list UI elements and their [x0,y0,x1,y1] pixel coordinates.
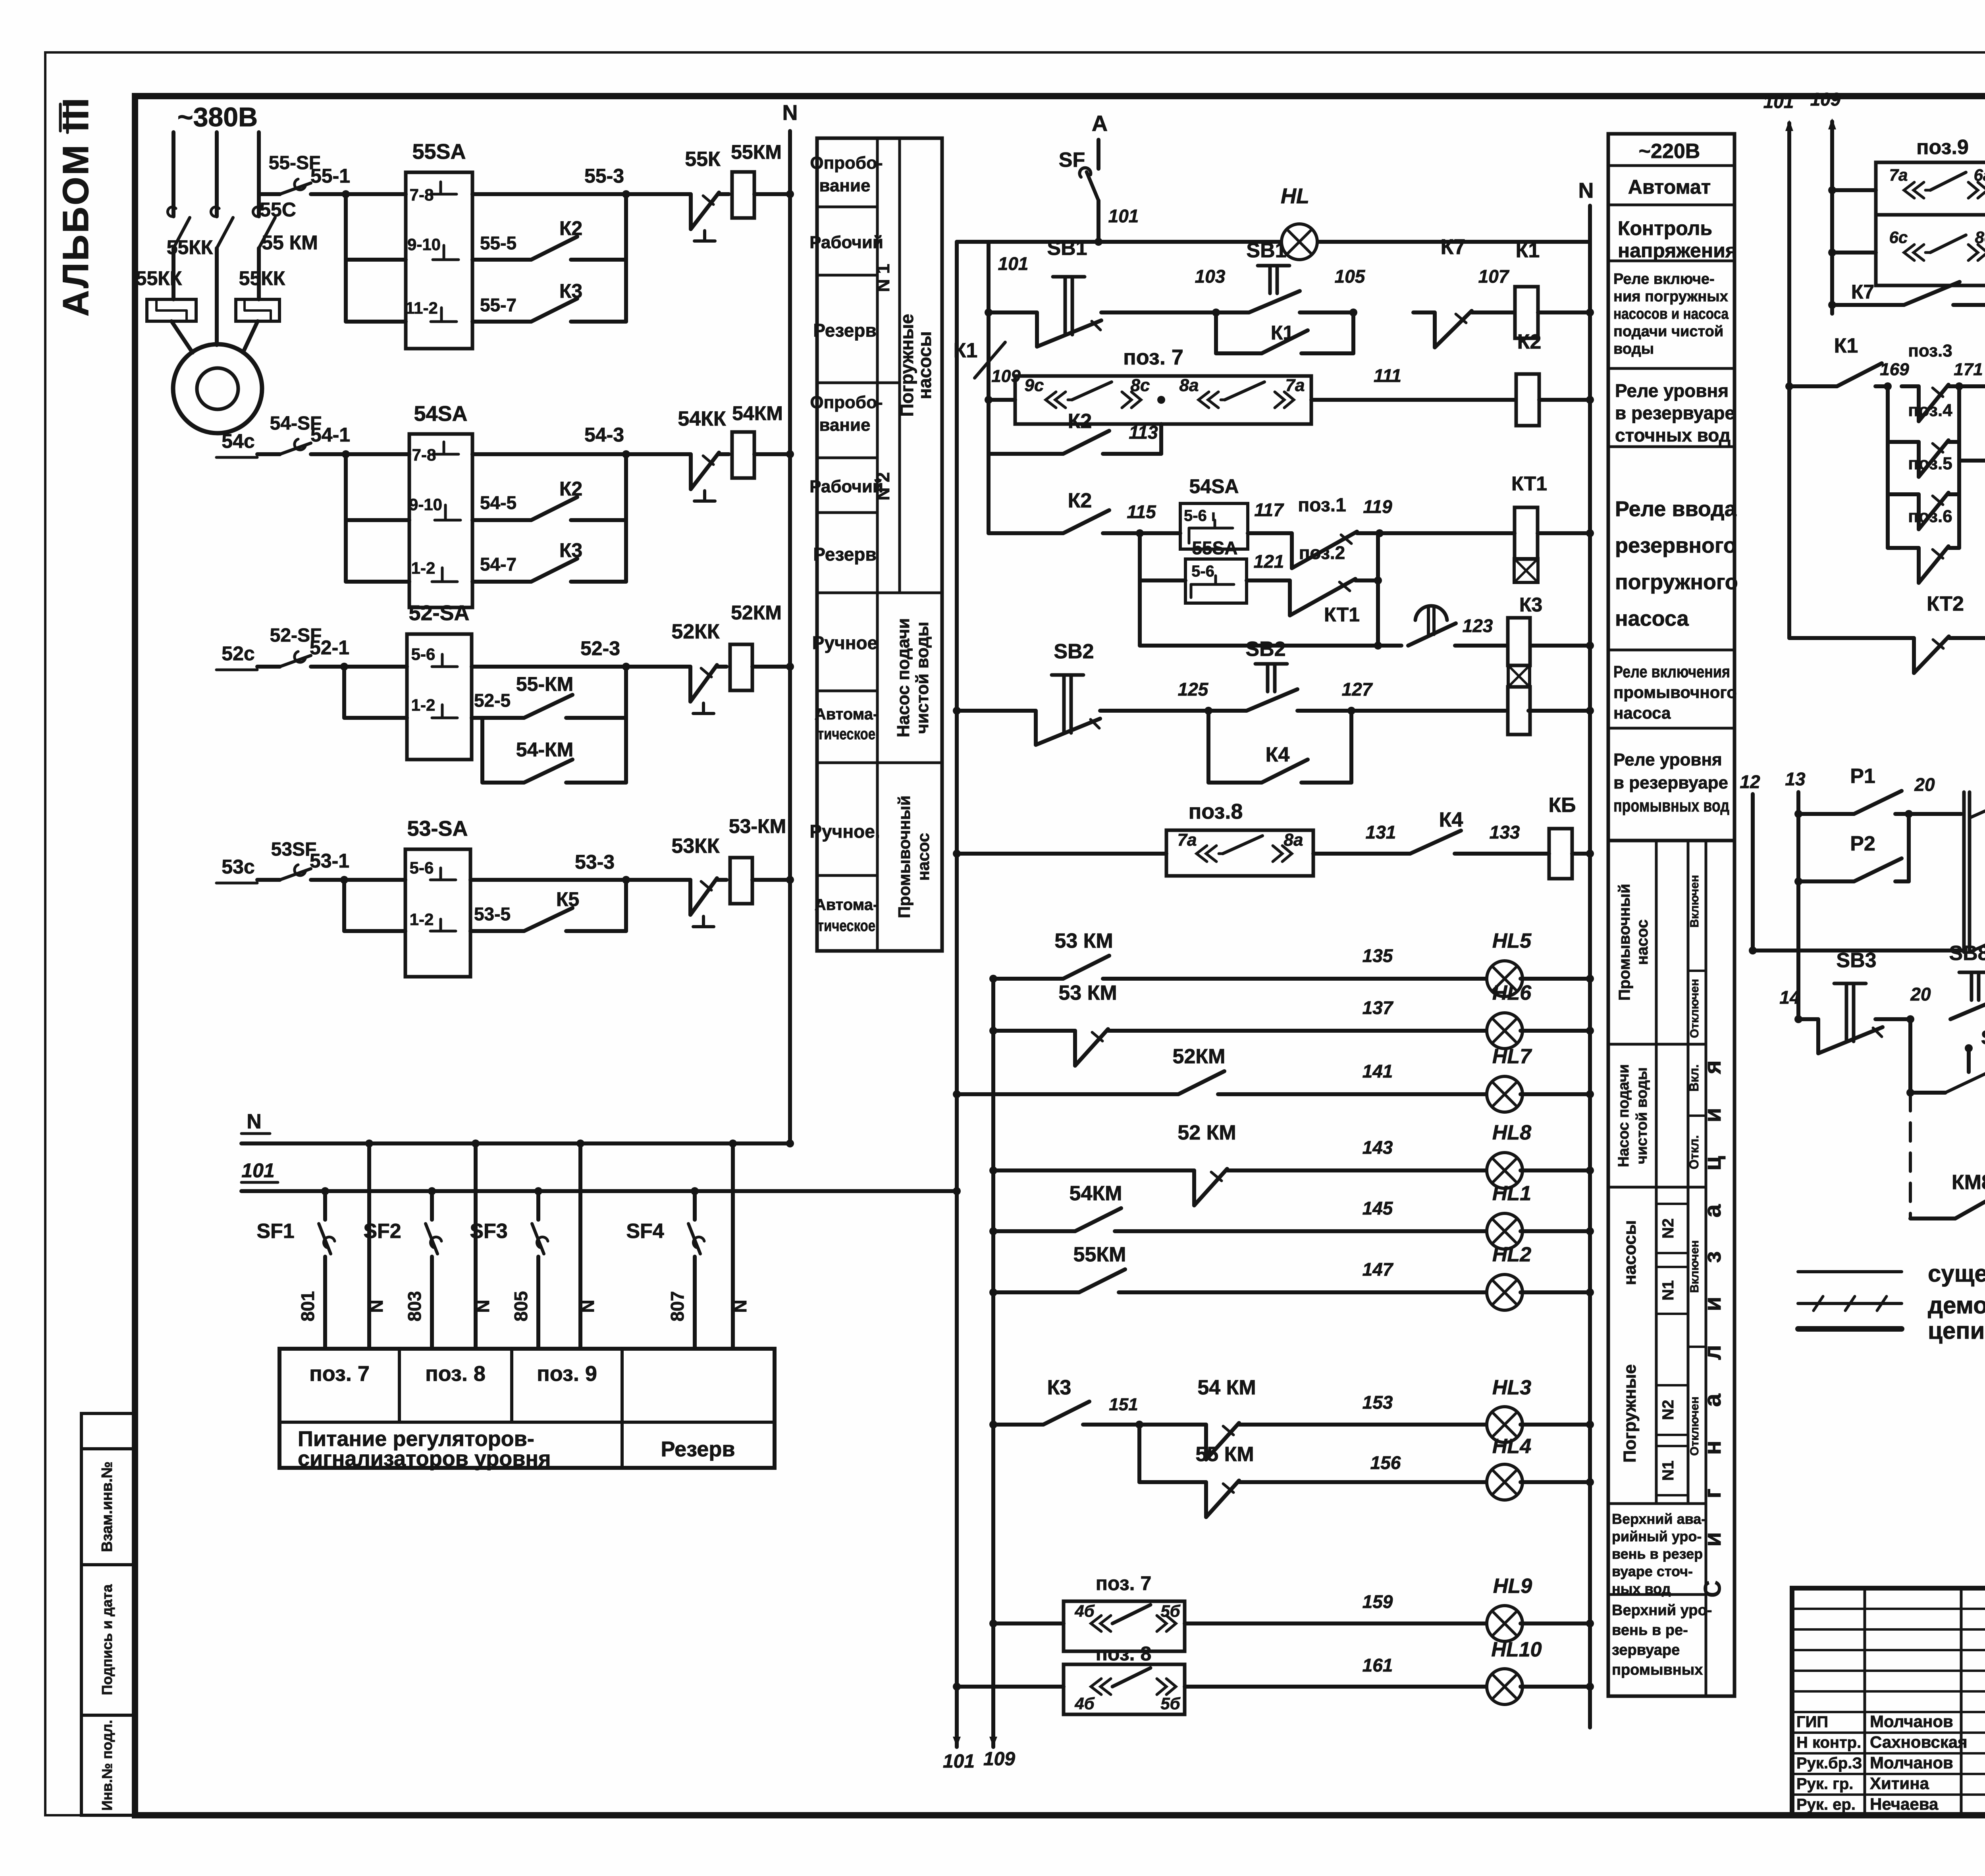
wire to 53SA [344,878,405,882]
svg-text:подачи чистой: подачи чистой [1613,323,1723,340]
svg-text:5-6: 5-6 [1191,563,1214,580]
svg-text:9-10: 9-10 [407,235,441,254]
relay coil K5 [1549,829,1572,879]
breaker 52-SF [257,665,280,669]
contact K7 NC [1413,310,1435,314]
float switch poz.8 signal [1064,1664,1185,1714]
svg-text:Верхний ава-: Верхний ава- [1612,1511,1706,1527]
svg-text:поз. 7: поз. 7 [1096,1572,1152,1595]
lamp HL4 [1487,1464,1522,1500]
signal N boxes [1656,1203,1688,1205]
riser 54-3 [624,454,628,582]
title block name grid [1792,1608,1985,1610]
svg-text:SB1: SB1 [1246,239,1286,262]
svg-text:20: 20 [1910,984,1931,1005]
contactor 55KM main contact 3 [253,207,261,216]
svg-text:52-1: 52-1 [310,636,349,659]
svg-text:К1: К1 [1516,239,1540,262]
node 20 (P1) [1905,810,1913,818]
float switch poz.9 box [1876,162,1985,215]
svg-text:4б: 4б [1074,1602,1095,1620]
svg-text:Промывочный: Промывочный [1616,884,1633,1001]
lamp row HL8 [989,1166,997,1174]
float switch poz.7 signal [1064,1601,1185,1651]
svg-text:161: 161 [1363,1655,1393,1675]
motor M [173,344,262,433]
svg-text:Отключен: Отключен [1688,979,1701,1038]
node 105 [1349,308,1357,316]
lamp row HL1 [989,1227,997,1235]
svg-text:N: N [1578,179,1594,202]
svg-text:вень в резер: вень в резер [1612,1546,1703,1562]
svg-text:5б: 5б [1160,1694,1180,1713]
svg-text:109: 109 [1810,89,1841,110]
contact KT2 time [1959,384,1985,388]
svg-text:HL4: HL4 [1492,1435,1531,1458]
svg-text:153: 153 [1363,1392,1393,1413]
svg-text:1-2: 1-2 [411,696,436,714]
svg-text:Взам.инв.№: Взам.инв.№ [99,1461,116,1552]
wire 52-3 [472,665,626,669]
svg-text:6с: 6с [1889,228,1908,247]
svg-text:ГИП: ГИП [1796,1713,1828,1731]
svg-text:54-7: 54-7 [480,554,516,575]
signal table col lines [1655,841,1658,1504]
svg-text:тическое: тическое [817,725,875,743]
breaker SF2 [430,1191,434,1220]
svg-text:в резервуаре: в резервуаре [1615,403,1735,423]
contact K2 seal [989,452,1052,456]
svg-text:Реле включе-: Реле включе- [1613,271,1715,287]
title block frame [1792,1588,1985,1815]
svg-text:55КК: 55КК [136,267,182,289]
svg-text:5-6: 5-6 [410,858,434,877]
svg-text:КТ1: КТ1 [1511,472,1547,495]
svg-text:демонтируемые цепи: демонтируемые цепи [1928,1292,1985,1319]
breaker 53SF [257,878,280,882]
node 169 [1884,382,1892,390]
contact K1 on rail [975,342,1005,378]
svg-text:N 2: N 2 [873,472,893,501]
lamp HL on bus [1282,224,1317,260]
relay coil K2 [1516,374,1539,426]
contact P2 [1794,877,1802,885]
svg-text:поз. 8: поз. 8 [1096,1643,1152,1665]
pushbutton SB2 stop [1208,709,1247,713]
svg-text:171: 171 [1954,360,1983,379]
contactor coil 52KM [730,644,752,690]
N rail (left section) [788,131,792,1143]
svg-text:чистой воды: чистой воды [1634,1067,1650,1164]
svg-text:N2: N2 [1659,1400,1677,1420]
svg-text:N1: N1 [1659,1280,1677,1300]
svg-text:55-3: 55-3 [584,165,624,187]
heater 55KK phase1 [147,299,196,321]
svg-text:HL8: HL8 [1492,1121,1531,1144]
branch 151 riser [1137,1425,1141,1482]
stamp cell inv [81,1715,135,1815]
svg-text:Реле уровня: Реле уровня [1613,750,1722,769]
svg-text:HL3: HL3 [1492,1376,1531,1399]
svg-text:55КМ: 55КМ [1073,1243,1126,1266]
wire 52-1 [311,665,344,669]
lamp HL9 [1487,1606,1522,1641]
phase wire L1 [172,132,175,216]
wire 119 [1380,531,1515,535]
svg-text:вание: вание [819,415,870,435]
svg-text:насоса: насоса [1615,607,1689,630]
contact K1 (right) [1785,382,1793,390]
limit switch SQ1-1 [1965,1044,1973,1052]
contact K4 seal [1206,711,1210,783]
wire to poz8 box [957,852,1166,856]
svg-text:вуаре сточ-: вуаре сточ- [1612,1563,1693,1579]
svg-text:53-SA: 53-SA [407,817,468,841]
signal table frame [1608,841,1734,1696]
svg-text:поз. 9: поз. 9 [537,1362,597,1386]
svg-text:Н контр.: Н контр. [1796,1734,1861,1751]
svg-text:Резерв: Резерв [661,1437,735,1461]
wire 52 coil to N [752,665,790,669]
svg-text:127: 127 [1342,679,1373,700]
svg-text:SF4: SF4 [626,1220,664,1243]
svg-text:Рук. гр.: Рук. гр. [1796,1775,1853,1793]
contactor 55KM main contact 2 [211,207,219,216]
wire 53-1 [311,878,344,882]
svg-text:Реле ввода: Реле ввода [1615,497,1737,521]
svg-text:насосы: насосы [1620,1220,1640,1285]
svg-text:Погружные: Погружные [1620,1364,1640,1463]
rail 101 middle [955,242,959,1747]
svg-text:135: 135 [1363,945,1393,966]
svg-text:156: 156 [1370,1452,1401,1473]
svg-text:К4: К4 [1266,743,1290,766]
thermal contact 52KK [626,665,675,669]
svg-text:К1: К1 [954,339,978,362]
svg-text:52-5: 52-5 [474,690,511,711]
svg-text:145: 145 [1363,1198,1393,1219]
node 101 SB1 row [985,308,992,316]
mode table group dividers [877,592,942,594]
pushbutton SB3 (dop) [1798,1017,1818,1021]
svg-text:54 КМ: 54 КМ [1197,1376,1256,1399]
relay coil K1 [1515,287,1538,338]
svg-text:Рук. ер.: Рук. ер. [1796,1796,1856,1813]
breaker SF (control) [1097,140,1100,169]
node 103 [1212,308,1220,316]
svg-text:54-КМ: 54-КМ [516,738,573,761]
svg-text:55С: 55С [260,199,296,221]
svg-text:HL1: HL1 [1492,1182,1531,1205]
mode table col line 2 [898,138,901,593]
wire K1 to N [1538,310,1590,314]
node 151 [1096,1423,1139,1427]
svg-text:К3: К3 [559,280,582,302]
svg-text:Инв.№ подл.: Инв.№ подл. [99,1720,115,1811]
svg-text:13: 13 [1785,769,1806,789]
breaker SF4 [693,1191,697,1220]
svg-text:цепи дополнительного монтажа: цепи дополнительного монтажа [1928,1317,1985,1344]
svg-text:насосы: насосы [914,331,935,399]
heater 55KK phase3 [236,299,279,321]
regulator box [279,1349,775,1468]
svg-text:8а: 8а [1284,830,1303,850]
legend new line [1798,1326,1902,1332]
wire to poz7 box [989,398,1015,402]
pushbutton SB2 [957,709,1036,713]
svg-text:HL7: HL7 [1492,1045,1532,1068]
time relay coil KT1 [1515,507,1538,559]
ladder right rail N [1588,242,1592,1728]
contact K3 (54 ckt) [472,580,520,584]
wire 117 [1248,531,1255,535]
svg-text:HL10: HL10 [1491,1638,1542,1661]
contactor coil 54KM [732,432,754,478]
svg-text:52КМ: 52КМ [731,602,782,624]
riser 119 [1376,533,1380,646]
svg-text:КТ2: КТ2 [1927,592,1964,615]
contact K4 [1397,852,1410,856]
svg-text:55КК: 55КК [239,267,285,289]
contact poz.2 [1253,578,1290,582]
svg-text:55-5: 55-5 [480,233,516,253]
pushbutton SB1 [989,310,1037,314]
svg-text:А: А [1092,111,1108,136]
contact poz.4 [1888,440,1902,444]
svg-text:55-1: 55-1 [310,165,350,187]
svg-text:вень в ре-: вень в ре- [1612,1622,1688,1639]
svg-text:55 КМ: 55 КМ [1195,1443,1254,1466]
svg-text:поз.6: поз.6 [1908,507,1952,526]
wire heater1 to motor [172,321,193,353]
svg-text:119: 119 [1363,496,1392,517]
svg-text:Сахновская: Сахновская [1870,1733,1968,1751]
svg-text:N: N [782,101,798,125]
svg-text:промывных: промывных [1612,1662,1703,1678]
svg-text:промывочного: промывочного [1613,683,1737,702]
relay coil K4 [1508,687,1530,735]
svg-text:SF3: SF3 [470,1220,507,1243]
wire N drop SF3 [578,1143,582,1349]
svg-text:52-SA: 52-SA [409,601,469,625]
contact 54KM NC [1139,1423,1187,1427]
svg-text:SB1: SB1 [1047,237,1087,260]
breaker 54-SF [257,452,280,456]
svg-text:54SA: 54SA [1189,475,1239,497]
svg-text:5-6: 5-6 [411,645,436,663]
thermal contact 55K [626,192,675,196]
selector switch 54SA [409,434,472,607]
selector 55SA aux [1140,578,1185,582]
stamp cell podpis [81,1565,135,1715]
svg-text:К3: К3 [1519,594,1542,616]
node poz8 signal row [953,1683,961,1691]
contact KT1 time [1140,644,1401,648]
svg-text:~380В: ~380В [177,102,258,132]
contact KM8 [1910,1217,1945,1220]
svg-text:807: 807 [667,1291,688,1322]
wire 12 horizontal [1753,949,1964,952]
svg-text:101: 101 [1763,91,1794,112]
wire 123 [1455,644,1507,648]
node poz7 signal row [989,1620,997,1627]
legend demounted line [1798,1302,1902,1305]
svg-text:Подпись и дата: Подпись и дата [99,1584,115,1695]
svg-text:ных вод: ных вод [1612,1581,1671,1597]
wire 155 [1251,1480,1489,1484]
svg-text:101: 101 [1108,206,1139,226]
svg-text:131: 131 [1366,822,1396,843]
wire K5 to N [1572,852,1590,856]
svg-text:ния погружных: ния погружных [1613,288,1728,305]
ladder top bus [957,240,1590,244]
svg-text:поз. 7: поз. 7 [309,1362,370,1386]
svg-text:Молчанов: Молчанов [1870,1712,1953,1731]
svg-text:53-3: 53-3 [575,851,615,873]
svg-text:промывных вод: промывных вод [1613,796,1729,816]
svg-text:53-1: 53-1 [310,850,349,872]
relay coil K3 [1508,618,1530,665]
description table frame [1608,134,1734,841]
svg-text:20: 20 [1914,774,1935,795]
svg-text:137: 137 [1363,997,1394,1018]
bus 101 bottom [241,1189,957,1193]
svg-text:Ручное: Ручное [812,632,877,653]
svg-text:141: 141 [1363,1061,1393,1082]
svg-text:поз. 8: поз. 8 [425,1362,486,1386]
dashed riser left [1909,1093,1912,1219]
bus N bottom [241,1141,790,1145]
wire 55-3 [472,192,626,196]
svg-text:сигнализаторов уровня: сигнализаторов уровня [298,1447,551,1471]
svg-text:~220В: ~220В [1639,140,1700,163]
wire K3 to N [1530,644,1590,648]
svg-text:Рабочий: Рабочий [809,233,883,252]
svg-text:5-6 ı: 5-6 ı [1184,507,1216,524]
svg-text:7а: 7а [1285,376,1305,395]
pushbutton SB8 [1959,971,1985,974]
contact 54-KM interlock [480,718,484,783]
wire N drop SF2 [474,1143,478,1349]
node poz8 row [953,850,961,858]
svg-text:55SA: 55SA [412,140,466,164]
svg-text:8с: 8с [1975,228,1985,247]
svg-text:121: 121 [1254,551,1284,572]
contact 55KM NC (signal) [1139,1480,1187,1484]
wire 55-1 [311,192,346,196]
selector 54SA aux [1180,503,1248,549]
svg-text:Верхний уро-: Верхний уро- [1612,1602,1712,1619]
svg-text:К2: К2 [1068,489,1092,512]
svg-text:1-2: 1-2 [410,910,434,929]
legend existing line [1798,1270,1902,1273]
wire 131 [1313,852,1397,856]
svg-text:SF2: SF2 [363,1220,401,1243]
contact K2 (54 ckt) [472,518,520,522]
svg-text:52 КМ: 52 КМ [1178,1121,1236,1144]
wire to 52SA [344,665,407,669]
svg-text:54-5: 54-5 [480,492,516,513]
svg-text:поз.9: поз.9 [1916,136,1969,159]
title block name cols [1864,1588,1866,1815]
svg-text:133: 133 [1490,822,1520,843]
svg-text:SB2: SB2 [1054,640,1094,663]
branch poz bank left [1886,386,1890,548]
contact P1 [1794,810,1802,818]
mode table frame [817,138,942,951]
svg-text:101: 101 [943,1751,975,1772]
svg-text:SF1: SF1 [256,1220,294,1243]
svg-text:Промывочный: Промывочный [895,795,913,918]
node 171 [1955,382,1963,390]
svg-text:HL5: HL5 [1492,929,1532,952]
svg-text:7а: 7а [1889,166,1908,184]
node 20 (dop) [1875,1017,1910,1021]
poz9 row2 [1828,249,1836,256]
contact poz.5 [1888,492,1902,496]
phase wire L2 [215,132,219,216]
phase wire L3 [257,132,261,216]
svg-text:Реле уровня: Реле уровня [1615,380,1729,401]
svg-text:HL9: HL9 [1493,1575,1532,1598]
svg-text:55КМ: 55КМ [731,141,782,163]
svg-text:N1: N1 [1659,1460,1677,1481]
contact K7 seal [1828,301,1836,309]
svg-text:N: N [366,1300,387,1313]
contact K1 seal [1214,312,1218,353]
lamp HL3 [1487,1407,1522,1442]
selector switch 55SA [406,172,472,349]
stamp cell blank [81,1413,135,1449]
svg-text:N: N [577,1300,598,1313]
svg-text:чистой воды: чистой воды [913,622,932,734]
svg-text:вание: вание [819,176,870,195]
svg-text:12: 12 [1740,771,1760,792]
selector switch 53-SA [405,849,470,977]
svg-text:107: 107 [1478,266,1510,287]
node 125 [1204,707,1212,715]
svg-text:К7: К7 [1851,281,1874,303]
svg-text:801: 801 [297,1291,318,1322]
svg-text:насос: насос [914,833,933,881]
rail 109 lamps [991,979,995,1747]
wire 177 [1961,636,1985,640]
svg-text:HL6: HL6 [1492,981,1532,1005]
svg-text:К2: К2 [1068,410,1092,433]
svg-text:Резерв: Резерв [813,544,876,565]
svg-text:N 1: N 1 [873,264,893,292]
wire 153 [1251,1423,1489,1427]
changeover switch [1909,812,1961,816]
wire K2 to N [1539,398,1590,402]
svg-text:54КМ: 54КМ [1070,1182,1122,1205]
svg-text:К2: К2 [1517,330,1542,353]
thermal contact 54KK [626,452,675,456]
svg-text:напряжения: напряжения [1618,239,1737,262]
svg-text:зервуаре: зервуаре [1612,1642,1680,1658]
svg-text:поз. 7: поз. 7 [1123,345,1183,369]
svg-text:Нечаева: Нечаева [1870,1795,1939,1813]
svg-text:101: 101 [241,1159,274,1182]
wire N drop SF1 [367,1143,371,1349]
svg-text:Ручное.: Ручное. [809,821,880,842]
svg-text:К3: К3 [559,539,582,561]
svg-text:52с: 52с [222,642,254,665]
riser 52-1 [342,667,346,718]
svg-text:Опробо-: Опробо- [810,153,883,173]
svg-text:КМ8: КМ8 [1952,1171,1985,1194]
selector switch 52-SA [407,634,472,760]
